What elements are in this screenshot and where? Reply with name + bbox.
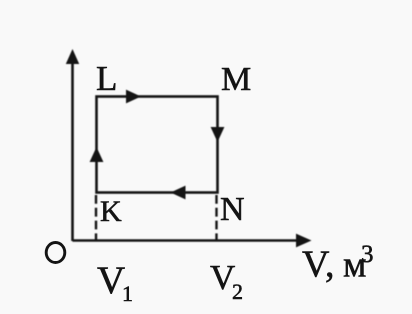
cycle rectangle KLMN bbox=[97, 97, 218, 193]
arrow L to M (right, top edge) bbox=[126, 90, 141, 104]
dashed line V2 bbox=[215, 195, 217, 240]
origin O bbox=[46, 243, 65, 263]
svg-text:3: 3 bbox=[361, 241, 374, 268]
arrow K to L (up, left edge) bbox=[90, 147, 104, 162]
svg-text:1: 1 bbox=[122, 281, 133, 306]
svg-text:K: K bbox=[100, 195, 122, 228]
dashed line V1 bbox=[95, 195, 97, 240]
vertical axis (pressure axis) bbox=[66, 49, 79, 241]
horizontal axis V bbox=[73, 234, 312, 248]
svg-text:L: L bbox=[96, 59, 117, 98]
svg-text:,: , bbox=[325, 244, 335, 286]
svg-text:M: M bbox=[221, 61, 251, 98]
svg-text:2: 2 bbox=[232, 279, 243, 304]
svg-text:N: N bbox=[220, 191, 245, 228]
arrow N to K (left, bottom edge) bbox=[171, 186, 186, 200]
svg-text:V: V bbox=[97, 259, 125, 302]
arrow M to N (down, right edge) bbox=[211, 127, 225, 142]
